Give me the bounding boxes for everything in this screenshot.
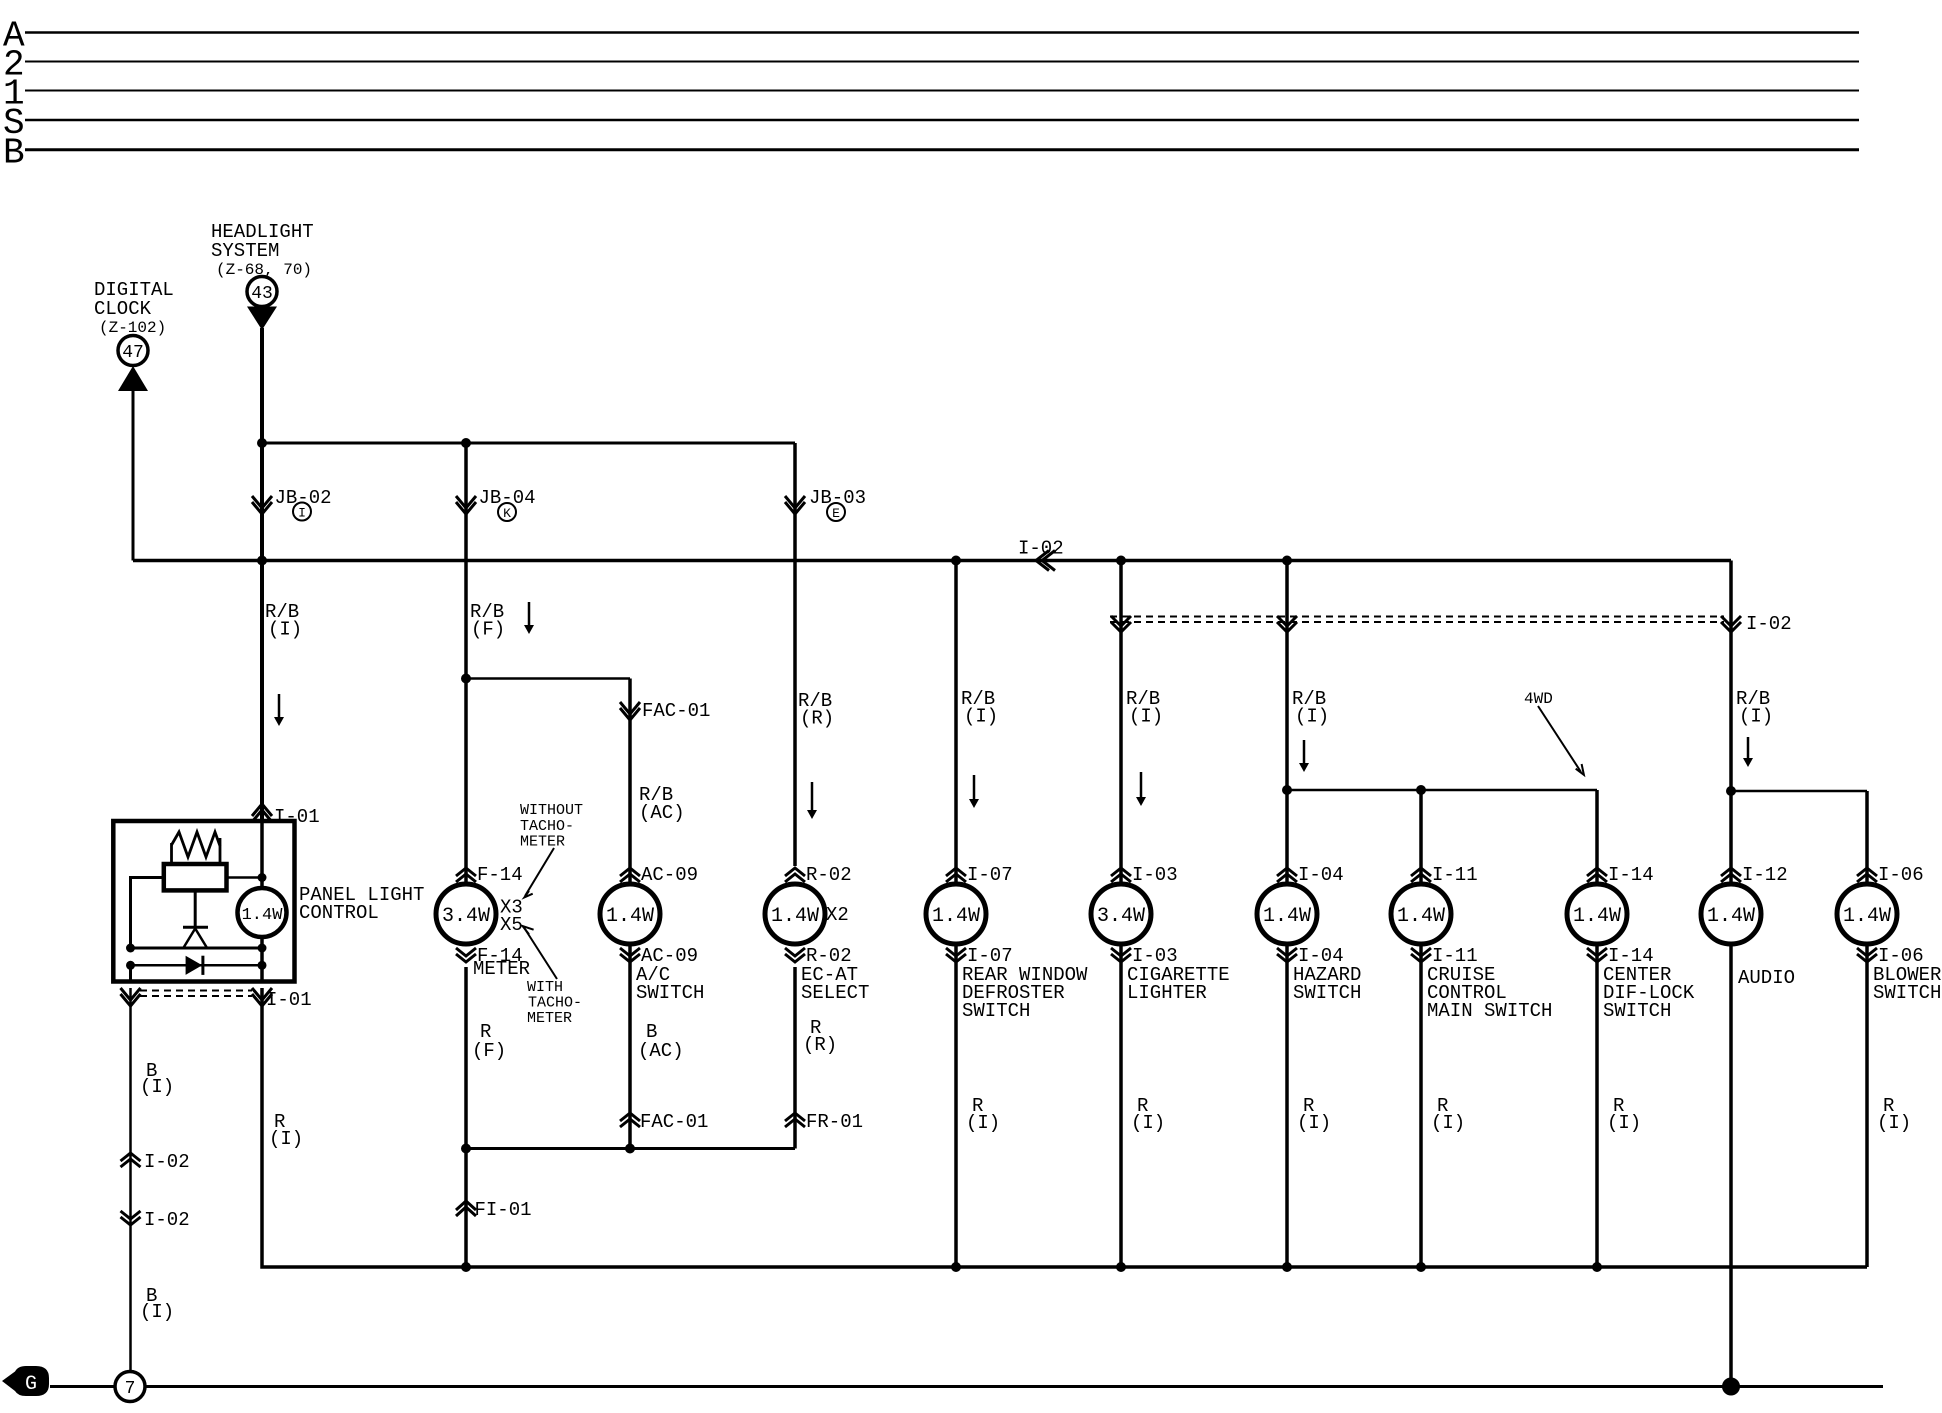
svg-text:(I): (I) (1131, 1112, 1165, 1134)
svg-text:(I): (I) (964, 706, 998, 728)
wire column I-06 x=1867 (1865, 791, 1869, 1267)
connector I-02 on hazard column (1277, 616, 1297, 632)
lamp I-03 3.4W (1091, 884, 1151, 944)
connector I-04 upper (1277, 868, 1297, 882)
svg-text:FAC-01: FAC-01 (642, 700, 710, 722)
svg-text:47: 47 (122, 343, 144, 363)
svg-text:(I): (I) (1431, 1112, 1465, 1134)
svg-text:(I): (I) (269, 1128, 303, 1150)
wire sub-bus y=1148.5 (466, 1147, 795, 1150)
connector I-02 on cigarette column (1111, 616, 1131, 632)
svg-text:CLOCK: CLOCK (94, 298, 152, 320)
lamp a/c switch 1.4W (600, 884, 660, 944)
svg-text:E: E (832, 506, 840, 521)
svg-text:(I): (I) (966, 1112, 1000, 1134)
svg-text:(I): (I) (1607, 1112, 1641, 1134)
connector JB-02 (252, 496, 272, 514)
header row line 1 (25, 90, 1859, 92)
junction bottom bus x=1121 (1116, 1262, 1126, 1272)
junction bus at x=956 (951, 556, 961, 566)
junction bottom bus x=1597 (1592, 1262, 1602, 1272)
lamp meter 3.4W (436, 884, 496, 944)
wire bottom bus y=1267 (466, 1265, 1867, 1269)
svg-text:G: G (25, 1373, 37, 1396)
svg-text:(I): (I) (1295, 706, 1329, 728)
connector I-03 lower (1111, 948, 1131, 962)
wire dashed I-02 link (double dashed) (1110, 616, 1724, 618)
svg-text:AUDIO: AUDIO (1738, 967, 1795, 989)
svg-text:3.4W: 3.4W (1097, 905, 1145, 928)
connector I-02 down on return (121, 1211, 141, 1225)
lamp ec-at select 1.4W (765, 884, 825, 944)
svg-text:FAC-01: FAC-01 (640, 1111, 708, 1133)
component PANEL LIGHT CONTROL box (113, 821, 294, 982)
wire top distribution y=443 (262, 442, 795, 445)
connector I-14 upper (1587, 868, 1607, 882)
svg-text:TACHO-: TACHO- (520, 818, 574, 835)
wire x=466 lamp to bottom bus (464, 967, 468, 1267)
svg-text:TACHO-: TACHO- (528, 995, 582, 1012)
node circle 7 (115, 1372, 145, 1402)
svg-text:I-02: I-02 (144, 1209, 190, 1231)
connector JB-02 pin circle I (293, 503, 311, 521)
svg-text:F-14: F-14 (477, 864, 523, 886)
connector FAC-01 upper (620, 702, 640, 720)
svg-text:I-04: I-04 (1298, 864, 1344, 886)
wire ground return x=130.5 (129, 988, 132, 1372)
connector I-06 lower (1857, 948, 1877, 962)
connector I-01 upper (252, 804, 272, 822)
svg-text:SWITCH: SWITCH (636, 982, 704, 1004)
connector I-12 upper (1721, 868, 1741, 882)
junction bus at x=1287 (1282, 556, 1292, 566)
header row line S (25, 119, 1859, 122)
diode D1 (186, 956, 203, 975)
junction at (466,1267) (461, 1262, 471, 1272)
wire headlight feed vertical x=262 top (260, 328, 264, 443)
wire dashed I-01 link (140, 990, 252, 992)
arrow from headlight system (down) (247, 307, 277, 331)
wire JB-04 vertical x=466 upper (464, 443, 468, 679)
svg-text:X5: X5 (500, 914, 523, 936)
connector R-02 lower (785, 948, 805, 962)
svg-text:43: 43 (251, 284, 273, 304)
svg-text:SWITCH: SWITCH (1603, 1000, 1671, 1022)
lamp I-14 1.4W (1567, 884, 1627, 944)
lamp I-12 1.4W (1701, 884, 1761, 944)
lamp panel illumination 1.4W (238, 888, 287, 937)
svg-text:1.4W: 1.4W (1573, 905, 1621, 928)
wire pot left arm (131, 878, 164, 949)
svg-text:(F): (F) (471, 619, 505, 641)
svg-text:B: B (3, 133, 25, 174)
wire x=795 lamp to sub-bus (793, 967, 797, 1149)
connector I-07 upper (946, 868, 966, 882)
svg-text:(I): (I) (1297, 1112, 1331, 1134)
arrow flow down x=262 (278, 694, 281, 718)
svg-text:SWITCH: SWITCH (962, 1000, 1030, 1022)
svg-text:SELECT: SELECT (801, 982, 869, 1004)
wire branch (466,678.5) to (630,678.5) (466, 677, 630, 680)
arrow pointer without-tacho to X3 (525, 848, 554, 896)
svg-text:I-14: I-14 (1608, 864, 1654, 886)
svg-text:METER: METER (527, 1010, 572, 1027)
connector JB-03 pin circle E (827, 503, 845, 521)
svg-text:I-06: I-06 (1878, 864, 1924, 886)
svg-text:X2: X2 (826, 904, 849, 926)
svg-text:1.4W: 1.4W (1707, 905, 1755, 928)
wire x=630 lamp to sub-bus (628, 944, 632, 1149)
connector FR-01 (785, 1113, 805, 1127)
connector F-14 upper (456, 868, 476, 882)
connector I-11 lower (1411, 948, 1431, 962)
resistor left leg (170, 843, 173, 864)
wire column I-14 x=1597 (1595, 790, 1599, 1267)
connector I-14 lower (1587, 948, 1607, 962)
svg-text:WITH: WITH (527, 979, 563, 996)
connector I-03 upper (1111, 868, 1131, 882)
wire JB-03 vertical x=795 upper (793, 443, 797, 866)
svg-text:(I): (I) (268, 619, 302, 641)
wire column I-11 x=1421 (1419, 790, 1423, 1267)
connector AC-09 upper (620, 868, 640, 882)
wire tie bar y=948 inside box (131, 947, 263, 950)
svg-text:I-01: I-01 (266, 989, 312, 1011)
connector I-06 upper (1857, 868, 1877, 882)
svg-text:(I): (I) (140, 1301, 174, 1323)
svg-text:I-02: I-02 (1746, 613, 1792, 635)
resistor zigzag (variable resistor) (172, 832, 221, 857)
arrow flow down x=1304 (1303, 740, 1306, 764)
svg-text:LIGHTER: LIGHTER (1127, 982, 1207, 1004)
connector I-02 up on return (121, 1153, 141, 1167)
junction at (262,948) (258, 944, 267, 953)
svg-text:METER: METER (473, 958, 530, 980)
wire diode bar y=965.3 (131, 964, 263, 967)
transistor wiper bar (183, 926, 208, 929)
ground tag G (2, 1366, 49, 1396)
arrow pointer with-tacho to X5 (524, 928, 557, 980)
svg-text:I-11: I-11 (1432, 864, 1478, 886)
arrow flow down x=1748 (1747, 737, 1750, 759)
junction at (130.5,948) (126, 944, 135, 953)
junction at (262,965.3) (258, 961, 267, 970)
wire ground line y=1386.5 (50, 1385, 1883, 1388)
svg-text:4WD: 4WD (1524, 690, 1553, 708)
connector I-07 lower (946, 948, 966, 962)
wire headlight feed x=262 mid (260, 443, 264, 561)
svg-text:WITHOUT: WITHOUT (520, 802, 583, 819)
wire digital clock vertical x=133 (132, 389, 135, 561)
wire column I-07 x=956 (954, 561, 958, 1268)
wire branch y=790 hazard to dif-lock (1287, 789, 1597, 792)
svg-text:(F): (F) (472, 1040, 506, 1062)
junction branch x=1421 y=790 (1416, 785, 1426, 795)
svg-text:(R): (R) (803, 1034, 837, 1056)
svg-text:METER: METER (520, 834, 565, 851)
connector I-04 lower (1277, 948, 1297, 962)
wire x=262 box to bottom bus (262, 988, 466, 1267)
wire left return inside box to bottom (129, 965, 132, 981)
svg-text:R-02: R-02 (806, 864, 852, 886)
svg-text:1.4W: 1.4W (1397, 905, 1445, 928)
svg-text:1.4W: 1.4W (1843, 905, 1891, 928)
arrow flow down x=974 (973, 775, 976, 800)
junction bus at x=262 (257, 556, 267, 566)
connector JB-04 (456, 496, 476, 514)
svg-text:1.4W: 1.4W (771, 905, 819, 928)
header row line 2 (25, 61, 1859, 63)
svg-text:1.4W: 1.4W (606, 905, 654, 928)
svg-text:SWITCH: SWITCH (1873, 982, 1941, 1004)
arrow pointer 4WD (1538, 706, 1581, 772)
arrow flow down x=529 (528, 602, 531, 626)
junction at (466,1148.5) (461, 1144, 471, 1154)
svg-text:(I): (I) (1877, 1112, 1911, 1134)
connector I-02 on bus (1036, 551, 1055, 571)
connector I-01 lower right (252, 988, 272, 1006)
svg-text:K: K (503, 506, 511, 521)
junction at (262,877.5) (258, 873, 267, 882)
svg-text:FI-01: FI-01 (475, 1199, 532, 1221)
wire pot right to lamp node (227, 876, 263, 879)
arrow flow down x=1141 (1140, 772, 1143, 798)
svg-text:SWITCH: SWITCH (1293, 982, 1361, 1004)
junction bottom bus x=1287 (1282, 1262, 1292, 1272)
connector I-11 upper (1411, 868, 1431, 882)
connector JB-04 pin circle K (498, 503, 516, 521)
lamp I-04 1.4W (1257, 884, 1317, 944)
svg-text:SYSTEM: SYSTEM (211, 240, 279, 262)
wire lamp bottom to diode bar (260, 937, 264, 982)
lamp I-11 1.4W (1391, 884, 1451, 944)
header row line B (25, 148, 1859, 151)
connector JB-03 (785, 496, 805, 514)
svg-text:I-07: I-07 (967, 864, 1013, 886)
svg-text:AC-09: AC-09 (641, 864, 698, 886)
wire x=466 to meter lamp (464, 679, 468, 885)
svg-text:(AC): (AC) (639, 802, 685, 824)
header row line A (25, 31, 1859, 34)
svg-text:(I): (I) (1739, 706, 1773, 728)
connector I-02 on audio column (1721, 616, 1741, 632)
potentiometer body rect (164, 864, 227, 890)
node circle 43 (247, 277, 277, 307)
connector FAC-01 lower (620, 1113, 640, 1127)
svg-text:(I): (I) (140, 1076, 174, 1098)
svg-text:CONTROL: CONTROL (299, 902, 379, 924)
junction at (630,1148.5) (625, 1144, 635, 1154)
transistor legs (184, 929, 207, 948)
resistor right leg (219, 838, 222, 864)
svg-text:I-01: I-01 (274, 806, 320, 828)
svg-text:1.4W: 1.4W (932, 905, 980, 928)
connector R-02 upper (785, 868, 805, 882)
node circle 47 (118, 336, 148, 366)
connector I-01 lower left (121, 988, 141, 1006)
junction at (130.5,965.3) (126, 961, 135, 970)
wire main bus y=560.5 (133, 559, 1731, 563)
svg-text:7: 7 (125, 1379, 136, 1399)
svg-text:(I): (I) (1129, 706, 1163, 728)
junction at (262,443) (257, 438, 267, 448)
svg-text:1.4W: 1.4W (242, 906, 284, 925)
wire panel feed x=262 (bus to box) (260, 561, 264, 823)
svg-text:(R): (R) (800, 708, 834, 730)
junction bus at x=1121 (1116, 556, 1126, 566)
svg-text:FR-01: FR-01 (806, 1111, 863, 1133)
junction at (466,678.5) (461, 674, 471, 684)
junction bottom bus x=1421 (1416, 1262, 1426, 1272)
wire column I-12 x=1731 (1729, 561, 1733, 1387)
svg-text:I-03: I-03 (1132, 864, 1178, 886)
connector F-14 lower (456, 948, 476, 962)
svg-text:I-12: I-12 (1742, 864, 1788, 886)
wire x=630 a/c column (628, 679, 632, 885)
junction branch x=1731 y=791 (1726, 786, 1736, 796)
svg-text:I-02: I-02 (144, 1151, 190, 1173)
wire branch y=791 audio to blower (1731, 790, 1867, 793)
connector AC-09 lower (620, 948, 640, 962)
wire pot wiper down (194, 890, 197, 927)
junction ground at x=1731 (1722, 1378, 1740, 1396)
svg-text:MAIN SWITCH: MAIN SWITCH (1427, 1000, 1552, 1022)
svg-text:3.4W: 3.4W (442, 905, 490, 928)
svg-text:1.4W: 1.4W (1263, 905, 1311, 928)
wire column I-04 x=1287 (1285, 561, 1289, 1268)
wire column I-03 x=1121 (1119, 561, 1123, 1268)
connector FI-01 (456, 1201, 476, 1216)
junction at (466,443) (461, 438, 471, 448)
lamp I-06 1.4W (1837, 884, 1897, 944)
junction bottom bus x=956 (951, 1262, 961, 1272)
arrow to digital clock (up) (118, 366, 148, 391)
svg-text:I-02: I-02 (1018, 538, 1064, 560)
svg-text:(AC): (AC) (638, 1040, 684, 1062)
wire inside box vertical x=262 (260, 821, 264, 890)
svg-text:I: I (298, 506, 306, 521)
junction branch x=1287 y=790 (1282, 785, 1292, 795)
lamp I-07 1.4W (926, 884, 986, 944)
arrow flow down x=812 (811, 782, 814, 811)
